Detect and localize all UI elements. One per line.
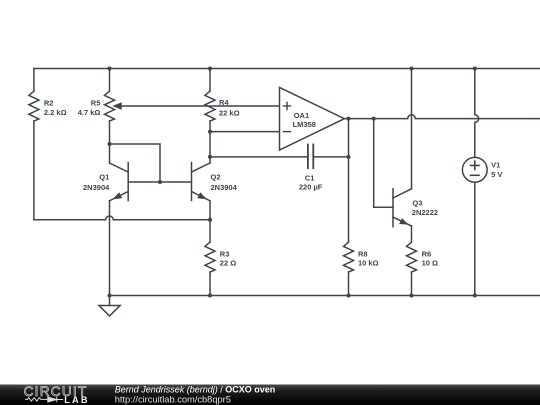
svg-text:220 µF: 220 µF — [299, 183, 323, 192]
resistor R3 — [205, 242, 215, 272]
node ground rail / Q1 emitter — [108, 294, 112, 298]
wire V1 top lead with hop over output wire — [475, 69, 479, 158]
transistor Q3 — [393, 189, 412, 227]
node feedback right — [347, 155, 351, 159]
wire Q1 collector tie to bases — [110, 144, 161, 182]
transistor Q1 — [110, 163, 129, 201]
wire V1 bottom lead — [474, 182, 476, 295]
wire inverting input — [210, 131, 280, 133]
node ground rail / R8 — [347, 294, 351, 298]
svg-text:Q1: Q1 — [99, 173, 109, 182]
resistor R4 — [205, 91, 215, 121]
wire Q1 emitter down to ground rail — [109, 201, 111, 296]
wire R2 bottom lead down — [33, 121, 35, 220]
svg-text:R4: R4 — [219, 98, 229, 107]
node top rail / V1 — [473, 67, 477, 71]
footer bar — [0, 385, 540, 405]
wire R5 wiper to op-amp + input — [121, 105, 280, 107]
svg-text:22 kΩ: 22 kΩ — [219, 108, 240, 117]
wire Q3 emitter to R6 — [411, 226, 413, 242]
wire R3 bottom lead — [209, 272, 211, 296]
svg-text:R2: R2 — [44, 98, 54, 107]
svg-text:C1: C1 — [305, 173, 315, 182]
wire op-amp output with hop over Q3 collector — [344, 115, 540, 119]
wire bottom-left horizontal with hop over Q1 emitter — [34, 216, 210, 220]
svg-text:2N2222: 2N2222 — [412, 208, 438, 217]
svg-text:OA1: OA1 — [294, 111, 309, 120]
wire C1 right segment — [313, 156, 348, 158]
svg-text:R3: R3 — [220, 249, 230, 258]
node R4 bottom / inverting input — [208, 130, 212, 134]
CircuitLab logo resistor squiggle — [25, 398, 48, 401]
ground symbol — [99, 296, 120, 316]
op-amp plus symbol — [283, 102, 290, 109]
svg-text:10 kΩ: 10 kΩ — [358, 259, 379, 268]
svg-text:V1: V1 — [491, 160, 500, 169]
wire R3 top lead — [209, 220, 211, 242]
node ground rail / R6 — [410, 294, 414, 298]
wire Q1 Q2 base bus — [128, 181, 191, 183]
resistor R8 — [344, 242, 354, 272]
CircuitLab logo diode — [48, 397, 63, 402]
svg-text:LAB: LAB — [64, 395, 89, 405]
V1 minus symbol — [471, 174, 479, 176]
wire output to Q3 base riser — [374, 119, 393, 208]
wire R4 top lead — [209, 69, 211, 92]
node top rail / R4 — [208, 67, 212, 71]
svg-text:2N3904: 2N3904 — [211, 183, 238, 192]
node ground rail / V1 — [473, 294, 477, 298]
V1 plus symbol — [471, 161, 479, 169]
wire R6 bottom lead — [411, 272, 413, 296]
svg-text:22 Ω: 22 Ω — [220, 259, 236, 268]
wire Q3 collector riser to top rail — [411, 69, 413, 189]
svg-text:2.2 kΩ: 2.2 kΩ — [44, 108, 67, 117]
node top rail / R5 — [108, 67, 112, 71]
wire R8 bottom lead — [348, 272, 350, 296]
node feedback left — [208, 155, 212, 159]
node ground rail / R3 — [208, 294, 212, 298]
resistor R6 — [407, 242, 417, 272]
wire R4 bottom / Q2 collector riser — [209, 121, 211, 163]
op-amp OA1 — [280, 87, 345, 150]
svg-text:Bernd Jendrissek (berndj) / OC: Bernd Jendrissek (berndj) / OCXO oven — [115, 385, 276, 395]
svg-text:5 V: 5 V — [491, 170, 502, 179]
resistor R2 — [29, 91, 39, 121]
svg-text:10 Ω: 10 Ω — [422, 259, 438, 268]
node Q2 emitter / R3 — [208, 218, 212, 222]
wire output down to R8 — [348, 119, 350, 242]
voltage source V1 — [462, 157, 487, 182]
wire top supply rail — [34, 68, 540, 70]
svg-text:LM358: LM358 — [293, 120, 316, 129]
wire R5 top lead — [109, 69, 111, 92]
svg-text:R8: R8 — [358, 249, 368, 258]
svg-text:Q2: Q2 — [211, 173, 221, 182]
svg-text:R6: R6 — [422, 249, 432, 258]
wire feedback left segment to C1 — [210, 156, 308, 158]
resistor R5 (pot body) — [105, 91, 115, 121]
svg-text:4.7 kΩ: 4.7 kΩ — [78, 108, 101, 117]
wire left branch R2 top lead — [33, 69, 35, 92]
op-amp minus symbol — [283, 131, 290, 133]
node base bus tie — [158, 180, 162, 184]
node output / Q3 base riser — [372, 117, 376, 121]
node top rail / Q3 collector — [410, 67, 414, 71]
svg-text:2N3904: 2N3904 — [83, 183, 110, 192]
svg-text:Q3: Q3 — [412, 199, 422, 208]
svg-text:http://circuitlab.com/cb8qpr5: http://circuitlab.com/cb8qpr5 — [115, 394, 231, 404]
transistor Q2 — [192, 163, 211, 201]
capacitor C1 — [308, 145, 313, 169]
svg-text:R5: R5 — [91, 98, 101, 107]
node R5 bottom / Q1 collector — [108, 142, 112, 146]
node output / R8 riser — [347, 117, 351, 121]
potentiometer R5 wiper arrow — [112, 102, 121, 109]
wire R5 bottom lead to Q1 collector — [109, 121, 111, 163]
wire bottom ground rail — [110, 295, 540, 297]
wire Q2 emitter down — [209, 201, 211, 220]
